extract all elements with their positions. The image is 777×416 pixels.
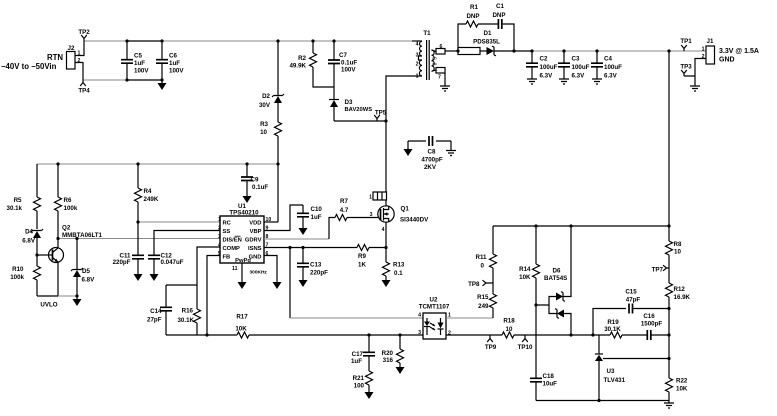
svg-text:1: 1 [369, 195, 372, 201]
capacitor C9 [246, 164, 248, 196]
svg-text:8: 8 [433, 62, 439, 65]
svg-text:1uF: 1uF [169, 60, 180, 67]
svg-text:C9: C9 [251, 177, 259, 184]
zener diode D5 6.8V [76, 239, 78, 270]
test point TP1 [681, 45, 687, 51]
svg-text:R8: R8 [674, 241, 682, 248]
svg-text:3: 3 [218, 234, 221, 240]
wire: secondary bottom rail [536, 400, 669, 402]
capacitor C11 [137, 222, 139, 274]
svg-text:6.3V: 6.3V [572, 73, 586, 80]
diode D1 PDS835L [487, 47, 495, 55]
svg-text:4: 4 [418, 313, 421, 319]
svg-text:GND: GND [719, 57, 735, 64]
svg-text:TP1: TP1 [680, 38, 692, 45]
svg-text:C5: C5 [134, 53, 142, 60]
svg-text:R3: R3 [260, 121, 268, 128]
wire: DNP loop right leg [502, 24, 514, 51]
svg-text:R14: R14 [519, 266, 531, 273]
svg-text:1500pF: 1500pF [641, 321, 663, 328]
svg-text:10K: 10K [235, 326, 247, 333]
wire: D1 to output caps [494, 50, 532, 52]
wire: opto pin2 line / feedback line [446, 334, 502, 336]
svg-text:R1: R1 [470, 4, 478, 11]
svg-text:R22: R22 [676, 378, 688, 385]
svg-text:MMBTA06LT1: MMBTA06LT1 [62, 232, 103, 239]
Q1 paralleled-pins box [373, 192, 387, 200]
wire: U3 ref line [603, 358, 669, 360]
resistor R15 [490, 294, 497, 318]
svg-text:TP7: TP7 [652, 267, 664, 274]
test point TP8 [483, 280, 494, 286]
svg-text:30.1K: 30.1K [177, 317, 194, 324]
capacitor C4 [596, 51, 598, 79]
wire: U1 VBP pin9 to C10 [264, 205, 303, 231]
svg-text:D2: D2 [262, 93, 270, 100]
resistor R19 [610, 332, 622, 338]
svg-text:COMP: COMP [223, 246, 241, 252]
svg-text:J2: J2 [68, 45, 75, 52]
shunt regulator U3 TLV431 [598, 335, 600, 354]
wire: R18 to R19 [514, 334, 610, 336]
svg-text:C6: C6 [169, 53, 177, 60]
capacitor C1 DNP [498, 19, 501, 29]
svg-text:249K: 249K [144, 196, 159, 203]
resistor R6 [55, 164, 62, 240]
svg-text:R19: R19 [607, 319, 619, 326]
svg-text:C4: C4 [604, 56, 612, 63]
svg-text:C15: C15 [625, 289, 637, 296]
wire: R17 to opto pin3 [249, 334, 423, 336]
svg-text:R10: R10 [12, 266, 24, 273]
svg-text:VBP: VBP [250, 229, 262, 235]
resistor R18 [502, 332, 514, 338]
zener diode D4 6.8V [31, 229, 43, 232]
ground arrow left of C8 [407, 141, 409, 149]
resistor R8 [666, 241, 673, 283]
capacitor C12 [148, 255, 160, 258]
T1 primary winding bottom (pins 2-1) [419, 60, 422, 76]
svg-text:49.9K: 49.9K [289, 63, 306, 70]
wire: UVLO bottom rail [37, 295, 58, 297]
svg-text:DNP: DNP [492, 12, 505, 19]
svg-text:C14: C14 [150, 308, 162, 315]
ground arrow below C12 [150, 274, 159, 281]
ground arrow below PwPd [238, 282, 247, 289]
svg-text:4: 4 [416, 42, 419, 48]
svg-text:300KHz: 300KHz [250, 270, 268, 276]
ground arrow below R13 [382, 280, 391, 287]
svg-text:249: 249 [478, 303, 489, 310]
capacitor C16 [647, 330, 651, 340]
svg-text:C17: C17 [352, 351, 364, 358]
svg-text:100V: 100V [341, 67, 356, 74]
connector J2 [67, 52, 76, 70]
svg-text:C10: C10 [311, 206, 323, 213]
resistor R12 [666, 283, 673, 378]
svg-text:TPS40210: TPS40210 [229, 210, 259, 217]
svg-text:3: 3 [416, 53, 419, 59]
svg-text:47pF: 47pF [626, 297, 641, 304]
svg-text:0.1uF: 0.1uF [341, 60, 357, 67]
svg-text:U2: U2 [430, 297, 438, 304]
wire: RC net [138, 221, 220, 223]
test point TP10 [522, 335, 528, 342]
svg-text:1: 1 [416, 74, 419, 80]
resistor R14 [533, 226, 540, 305]
resistor R20 [397, 335, 404, 367]
svg-text:RTN: RTN [47, 53, 63, 62]
wire: R19 to C16 [622, 334, 647, 336]
svg-text:1uF: 1uF [134, 60, 145, 67]
capacitor C5 [126, 41, 128, 80]
ground arrow below C10 [299, 228, 308, 235]
svg-text:C18: C18 [543, 373, 555, 380]
svg-text:TLV431: TLV431 [604, 377, 626, 384]
svg-text:0: 0 [481, 263, 485, 270]
wire: U1 COMP pin4 [197, 247, 220, 285]
capacitor C3 [563, 51, 565, 79]
wire: FB bottom line left [166, 334, 237, 336]
svg-text:TP4: TP4 [78, 88, 90, 95]
earth ground below C3 [559, 79, 569, 84]
resistor R21 [366, 371, 373, 392]
capacitor C10 [302, 205, 304, 228]
svg-text:0.1: 0.1 [394, 270, 403, 277]
svg-text:TP2: TP2 [78, 29, 90, 36]
svg-text:5: 5 [433, 57, 439, 60]
svg-text:6: 6 [440, 44, 443, 50]
svg-text:1uF: 1uF [351, 358, 362, 365]
svg-text:D6: D6 [553, 268, 561, 275]
resistor R17 [237, 332, 249, 338]
resistor R1 DNP [466, 21, 478, 27]
svg-text:10: 10 [506, 326, 513, 333]
svg-text:DNP: DNP [466, 13, 479, 20]
svg-text:100uF: 100uF [572, 64, 590, 71]
wire: D3 to drain line [334, 120, 386, 122]
wire: U1 GDRV pin8 to R7 [264, 238, 329, 240]
svg-text:ISNS: ISNS [248, 246, 262, 252]
svg-text:R7: R7 [340, 198, 348, 205]
wire: U1 ISNS pin7 [264, 247, 357, 249]
svg-text:6.3V: 6.3V [604, 73, 618, 80]
capacitor C6 [161, 41, 163, 80]
test point TP5 [374, 115, 380, 121]
svg-text:R18: R18 [503, 318, 515, 325]
svg-text:100V: 100V [134, 68, 149, 75]
svg-text:6.8V: 6.8V [22, 238, 36, 245]
wire: DIS/EN net [58, 238, 220, 240]
resistor R11 [490, 226, 497, 294]
svg-text:TP9: TP9 [485, 344, 497, 351]
svg-text:VDD: VDD [249, 221, 261, 227]
svg-text:R13: R13 [393, 262, 405, 269]
wire: J2 pin2 to bottom rail [75, 63, 83, 81]
ground arrow below U1 GND [273, 282, 282, 289]
svg-text:GDRV: GDRV [245, 238, 262, 244]
earth ground under T1 pin 7 [440, 86, 450, 91]
wire: input bottom rail [83, 79, 127, 81]
svg-text:3: 3 [418, 330, 421, 336]
ground arrow below C13 [299, 280, 308, 287]
connector J1 [706, 46, 715, 64]
svg-text:D3: D3 [345, 99, 353, 106]
capacitor C15 [629, 304, 633, 314]
capacitor C7 [333, 41, 335, 87]
earth ground below J1 pin2 [690, 86, 700, 91]
svg-text:6.3V: 6.3V [540, 73, 554, 80]
resistor R5 [34, 164, 41, 229]
svg-text:16.9K: 16.9K [674, 294, 691, 301]
wire: R14/C18 column crossing feedback line [535, 305, 537, 378]
svg-text:C2: C2 [540, 56, 548, 63]
svg-text:10uF: 10uF [543, 381, 558, 388]
wire: ISNS branch to opto [289, 248, 291, 319]
T1 primary winding top (pins 4-3) [412, 40, 422, 42]
wire: opto pin1 to R15 [446, 317, 493, 319]
svg-text:U3: U3 [607, 368, 615, 375]
wire: C16 to divider column [651, 334, 669, 336]
zener diode D2 30V [272, 94, 284, 97]
resistor R9 [357, 245, 369, 251]
svg-text:Q1: Q1 [401, 206, 410, 213]
T1 secondary winding [432, 50, 435, 71]
capacitor C17 [368, 335, 370, 371]
svg-text:30.1K: 30.1K [604, 326, 621, 333]
svg-text:BAT54S: BAT54S [544, 275, 567, 282]
test point TP4 [80, 80, 86, 86]
svg-text:D1: D1 [484, 30, 492, 37]
wire: bottom rail dark segment C5-C6 [127, 79, 162, 81]
svg-text:RC: RC [223, 221, 232, 227]
svg-text:100V: 100V [169, 68, 184, 75]
svg-text:7: 7 [438, 75, 441, 81]
svg-text:100: 100 [354, 383, 365, 390]
svg-text:316: 316 [383, 357, 394, 364]
svg-text:UVLO: UVLO [40, 302, 57, 309]
wire: U1 VDD pin10 [264, 221, 278, 223]
svg-text:3: 3 [370, 212, 373, 218]
wire: C15 branch [593, 309, 626, 336]
svg-text:R21: R21 [353, 375, 365, 382]
wire: U1 pin11 PwPd to ground [241, 263, 243, 282]
svg-text:FB: FB [223, 255, 231, 261]
svg-text:4700pF: 4700pF [421, 157, 443, 164]
svg-text:R16: R16 [182, 308, 194, 315]
transistor Q2 MMBTA06LT1 [49, 248, 64, 263]
test point TP7 [663, 265, 669, 271]
resistor R22 [666, 378, 673, 401]
wire: T1 pin1 to Q1 drain [386, 76, 422, 192]
wire: feedback top rail (rail C) [493, 225, 669, 227]
test point TP2 [81, 35, 87, 41]
ground arrow below UVLO rail [76, 296, 78, 299]
svg-text:R2: R2 [298, 55, 306, 62]
svg-text:TP10: TP10 [518, 344, 533, 351]
svg-text:TCMT1107: TCMT1107 [419, 304, 450, 311]
svg-text:−40V to −50Vin: −40V to −50Vin [1, 62, 57, 71]
svg-text:R6: R6 [64, 197, 72, 204]
svg-text:C1: C1 [496, 3, 504, 10]
svg-text:D4: D4 [25, 229, 33, 236]
capacitor C14 [165, 285, 167, 335]
svg-text:4.7: 4.7 [340, 207, 349, 214]
svg-text:220pF: 220pF [310, 270, 328, 277]
svg-text:2: 2 [416, 62, 419, 68]
test point TP9 [487, 335, 493, 342]
resistor R10 [34, 266, 41, 296]
svg-text:220pF: 220pF [113, 259, 131, 266]
svg-text:R20: R20 [382, 350, 394, 357]
wire: J1 pin2 to ground [695, 59, 706, 87]
svg-text:10: 10 [674, 249, 681, 256]
svg-text:1K: 1K [358, 262, 366, 269]
wire: pin7 box to ground [444, 73, 446, 86]
wire: U1 FB pin5 [207, 256, 220, 336]
svg-text:R17: R17 [236, 314, 248, 321]
wire: output divider column [668, 51, 670, 241]
svg-text:SI3440DV: SI3440DV [400, 217, 429, 224]
ground arrow below R21 [365, 392, 374, 399]
svg-text:TP8: TP8 [468, 281, 480, 288]
svg-text:TP5: TP5 [375, 110, 387, 117]
resistor R7 [335, 215, 347, 221]
svg-text:SS: SS [223, 229, 231, 235]
svg-text:30.1k: 30.1k [7, 205, 23, 212]
wire: DNP loop left leg [458, 24, 466, 51]
wire: U1 GND pin6 to ground [264, 256, 277, 283]
earth ground below C2 [527, 79, 537, 84]
T1 pin 7 box [436, 68, 445, 74]
svg-text:C7: C7 [339, 52, 347, 59]
svg-text:C8: C8 [428, 149, 436, 156]
optocoupler U2 TCMT1107 [423, 313, 446, 339]
T1 core [427, 40, 430, 80]
svg-text:C13: C13 [310, 262, 322, 269]
svg-text:C3: C3 [572, 56, 580, 63]
ground arrow below C11 [134, 274, 143, 281]
U2 internal arrows [430, 323, 435, 330]
svg-text:Q2: Q2 [62, 225, 71, 232]
svg-text:PwPd: PwPd [235, 258, 251, 264]
earth ground right of C8 [450, 141, 452, 151]
wire: comp network top rail [166, 284, 197, 286]
wire: T1 pin6 to sense box [445, 50, 458, 52]
T1 pin 6 box [436, 49, 445, 55]
svg-text:0.047uF: 0.047uF [161, 259, 184, 266]
wire: SS net [154, 231, 220, 256]
earth ground below C4 [592, 79, 602, 84]
wire: R1 to C1 [478, 23, 498, 25]
resistor R16 [194, 285, 201, 335]
capacitor C18 [530, 378, 542, 382]
svg-text:6.8V: 6.8V [82, 277, 96, 284]
svg-text:11: 11 [232, 266, 238, 272]
svg-text:C16: C16 [643, 313, 655, 320]
wire: box to D1 [480, 50, 487, 52]
svg-text:R12: R12 [674, 286, 686, 293]
svg-text:100k: 100k [10, 274, 24, 281]
wire: Q1 source down [385, 222, 387, 247]
svg-text:3.3V @ 1.5A: 3.3V @ 1.5A [719, 48, 759, 55]
ground arrow below R20 [396, 367, 405, 374]
U1 pin number tick marks [217, 220, 219, 222]
sense loop box [458, 48, 480, 55]
wire: VDD rail (rail B) [37, 163, 278, 165]
resistor R2 [310, 41, 335, 87]
svg-text:1: 1 [218, 217, 221, 223]
earth ground below R22 [668, 401, 670, 404]
svg-text:10K: 10K [676, 386, 688, 393]
svg-text:2: 2 [218, 226, 221, 232]
wire: R7 to Q1 gate [347, 217, 378, 219]
ground arrow below C9 [243, 196, 252, 203]
wire: C15 to divider column [633, 308, 670, 310]
U2 internal LED [426, 318, 428, 335]
resistor R3 [275, 122, 282, 136]
wire: R9 to Q1 source [369, 247, 386, 249]
svg-text:D5: D5 [82, 268, 90, 275]
capacitor C8 [408, 140, 451, 142]
svg-text:0.1uF: 0.1uF [252, 184, 268, 191]
resistor R4 [135, 164, 142, 222]
svg-text:27pF: 27pF [147, 317, 162, 324]
svg-text:T1: T1 [423, 30, 431, 37]
wire: top rail dark segment C5-C6 [127, 40, 162, 42]
svg-text:BAV20WS: BAV20WS [345, 107, 373, 113]
svg-text:R4: R4 [144, 188, 152, 195]
op-amp U1 TPS40210 [220, 216, 264, 263]
svg-text:1: 1 [702, 47, 705, 53]
capacitor C13 [302, 248, 304, 281]
wire: J2 pin1 to top rail [75, 41, 84, 56]
svg-text:DIS/EN: DIS/EN [223, 238, 242, 244]
capacitor C2 [531, 51, 533, 79]
svg-text:R15: R15 [477, 294, 489, 301]
svg-text:J1: J1 [707, 38, 714, 45]
svg-text:R5: R5 [14, 197, 22, 204]
wire: output rail [532, 50, 706, 52]
test point TP3 [681, 70, 695, 76]
wire: D2/R3 column to VDD [277, 41, 279, 222]
svg-text:100uF: 100uF [540, 64, 558, 71]
transistor Q1 SI3440DV [378, 206, 394, 222]
svg-text:2KV: 2KV [424, 164, 437, 171]
ground arrow below C6 [161, 80, 163, 83]
svg-text:10K: 10K [519, 274, 531, 281]
svg-text:1uF: 1uF [311, 214, 322, 221]
svg-text:10: 10 [260, 129, 267, 136]
wire: input top rail RTN [84, 40, 412, 42]
svg-text:4: 4 [382, 227, 385, 233]
diode D3 BAV20WS [333, 87, 335, 121]
svg-text:100uF: 100uF [604, 64, 622, 71]
svg-text:TP3: TP3 [680, 64, 692, 71]
svg-text:30V: 30V [259, 102, 271, 109]
svg-text:100k: 100k [64, 205, 78, 212]
U2 internal phototransistor [440, 318, 442, 335]
svg-text:R9: R9 [358, 253, 366, 260]
svg-text:PDS835L: PDS835L [473, 39, 500, 46]
resistor R13 [383, 248, 390, 281]
T1 primary series jog 3-2 [419, 56, 423, 60]
svg-text:R11: R11 [475, 254, 487, 261]
